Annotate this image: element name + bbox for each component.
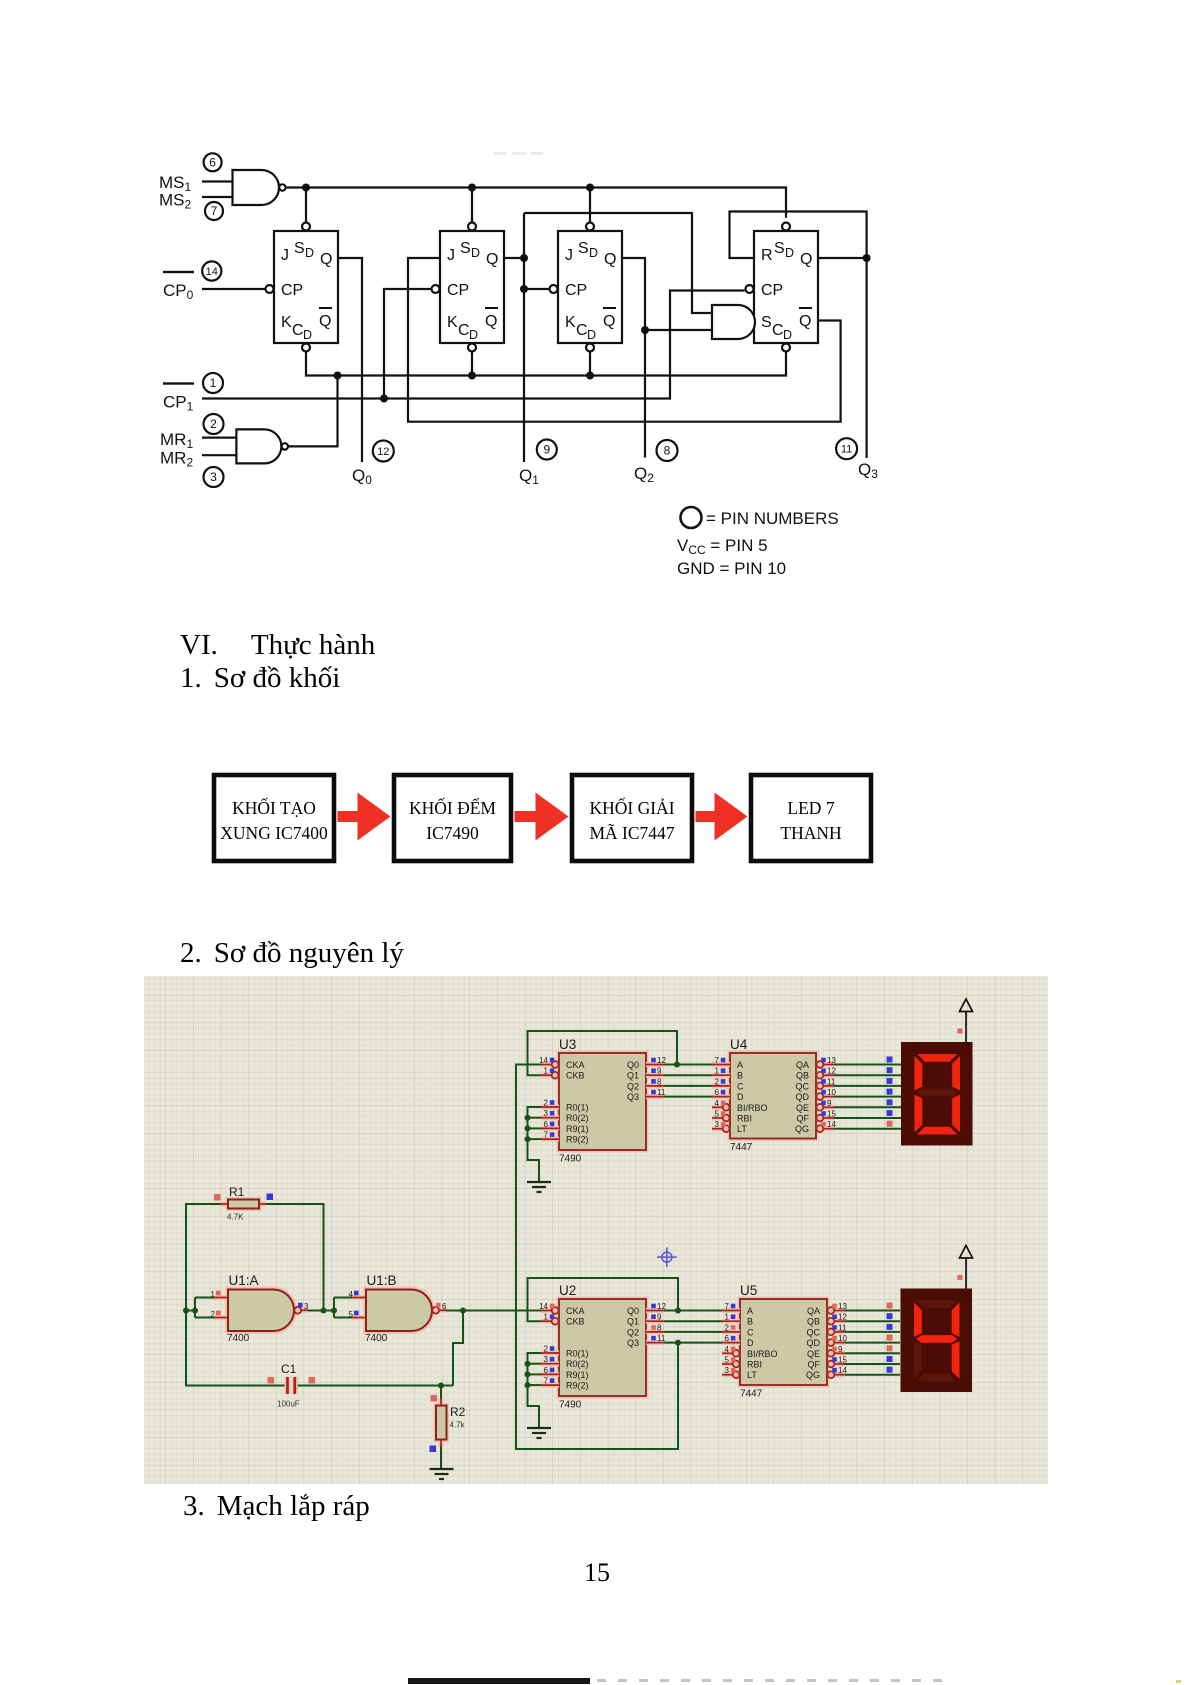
svg-text:6: 6 (544, 1120, 549, 1129)
junction R1 feedback node (321, 1308, 327, 1314)
svg-text:GND = PIN 10: GND = PIN 10 (677, 559, 786, 578)
svg-text:XUNG IC7400: XUNG IC7400 (220, 823, 328, 843)
svg-text:QG: QG (795, 1124, 809, 1134)
U5 pin 5 RBI (722, 1362, 740, 1367)
svg-text:R: R (761, 247, 773, 264)
FF3 CD bubble (586, 344, 594, 352)
U5 pin 14 QG (827, 1372, 845, 1377)
svg-text:RBI: RBI (737, 1114, 752, 1124)
wire U5 QF to display (845, 1363, 900, 1365)
svg-text:D: D (469, 328, 478, 342)
junction FF2 Q to FF3 CP (520, 285, 528, 293)
svg-text:D: D (737, 1092, 744, 1102)
svg-text:7400: 7400 (365, 1333, 388, 1344)
block diagram (0, 740, 1191, 890)
svg-text:QG: QG (806, 1370, 820, 1380)
U2 pin 1 CKB (541, 1319, 559, 1324)
svg-text:R1: R1 (229, 1185, 245, 1199)
flip-flop FF1 (274, 231, 338, 343)
svg-text:B: B (737, 1071, 743, 1081)
wire C1 right to R2 top (295, 1385, 453, 1387)
svg-text:Q1: Q1 (627, 1317, 639, 1327)
block box KHỐI TẠO XUNG IC7400 (214, 775, 334, 861)
svg-text:QD: QD (807, 1338, 821, 1348)
svg-text:Q: Q (604, 251, 616, 268)
svg-text:8: 8 (664, 444, 671, 458)
svg-text:= PIN NUMBERS: = PIN NUMBERS (706, 509, 839, 528)
U4 pin 1 B (712, 1073, 730, 1078)
svg-text:10: 10 (827, 1088, 836, 1097)
svg-text:3: 3 (304, 1302, 309, 1311)
junction CD rail FF2 (468, 372, 476, 380)
svg-text:Q: Q (486, 251, 498, 268)
resistor R2 (436, 1406, 447, 1440)
svg-text:S: S (774, 240, 785, 257)
svg-text:CP: CP (565, 282, 587, 299)
svg-text:2: 2 (544, 1099, 549, 1108)
U2 pin 6 R9(1) (541, 1372, 559, 1377)
svg-text:THANH: THANH (780, 823, 842, 843)
svg-text:C: C (747, 1327, 754, 1337)
heading 2 (180, 937, 404, 970)
svg-text:LED 7: LED 7 (787, 798, 834, 818)
resistor R1 (214, 1185, 273, 1222)
flip-flop FF2 (440, 231, 504, 343)
U4 pin 12 QB (816, 1073, 834, 1078)
U2 pin 8 Q2 (646, 1329, 664, 1334)
svg-text:11: 11 (657, 1088, 666, 1097)
svg-text:CKB: CKB (566, 1317, 585, 1327)
wire U4 QE to display (834, 1106, 901, 1108)
svg-text:LT: LT (737, 1124, 747, 1134)
svg-text:J: J (565, 247, 573, 264)
svg-text:1: 1 (211, 1290, 216, 1299)
wire U4 QC to display (834, 1085, 901, 1087)
wire U5 QD to display (845, 1342, 900, 1344)
svg-text:14: 14 (827, 1120, 836, 1129)
svg-text:7490: 7490 (559, 1400, 582, 1411)
U3 pin 11 Q3 (646, 1094, 664, 1099)
junction R1/C1/input node (183, 1308, 189, 1314)
svg-text:12: 12 (827, 1067, 836, 1076)
U2 pin 3 R0(2) (541, 1361, 559, 1366)
junction U2 Q0 node (675, 1308, 681, 1314)
U3 pin 8 Q2 (646, 1083, 664, 1088)
junction FF3 Q to AND (641, 326, 649, 334)
svg-text:R9(1): R9(1) (566, 1124, 589, 1134)
U2 pin 9 Q1 (646, 1319, 664, 1324)
svg-text:J: J (281, 247, 289, 264)
legend pin-number circle (681, 507, 702, 528)
wire U3 reset pins to ground (528, 1107, 542, 1182)
svg-text:S: S (294, 240, 305, 257)
wire U3 R0(2) tie (528, 1117, 542, 1119)
wire U3 Q0 to U4 A (664, 1064, 712, 1066)
junction FF2 Q node (520, 254, 528, 262)
svg-text:4: 4 (349, 1290, 354, 1299)
U5 pin 7 A (722, 1308, 740, 1313)
wire U5 QA to display (845, 1310, 900, 1312)
svg-text:7: 7 (544, 1377, 549, 1386)
svg-text:QC: QC (796, 1081, 810, 1091)
NAND gate U1:A (7400) (228, 1290, 294, 1332)
svg-text:MÃ IC7447: MÃ IC7447 (589, 823, 674, 843)
wire U5 QB to display (845, 1320, 900, 1322)
svg-text:2: 2 (725, 1323, 730, 1332)
svg-text:QC: QC (807, 1327, 821, 1337)
svg-text:Q2: Q2 (627, 1327, 639, 1337)
wire U4 QF to display (834, 1117, 901, 1119)
wire U2 R0(2) tie (528, 1363, 542, 1365)
wire U3 Q1 to U4 B (664, 1074, 712, 1076)
junction SD rail to FF3 (586, 184, 594, 192)
U5 pin 15 QF (827, 1362, 845, 1367)
junction U2 reset node 1 (525, 1361, 531, 1367)
flip-flop FF4 (754, 231, 818, 343)
wire U2 R9(2) tie (528, 1384, 542, 1386)
svg-text:Q2: Q2 (634, 464, 654, 485)
faint scan artifact line (493, 152, 543, 155)
svg-text:Q3: Q3 (858, 460, 878, 481)
power terminal bottom display anode (960, 1246, 973, 1289)
svg-text:QE: QE (807, 1349, 820, 1359)
svg-text:U1:A: U1:A (229, 1273, 259, 1288)
wire U3 R9(2) tie (528, 1138, 542, 1140)
svg-text:LT: LT (747, 1370, 757, 1380)
junction SD rail to FF2 (468, 184, 476, 192)
wire U2 Q0 to CKB feedback (528, 1278, 679, 1321)
svg-text:Q2: Q2 (627, 1081, 639, 1091)
svg-text:U3: U3 (559, 1037, 576, 1052)
7-segment display bottom (digit 4) (901, 1289, 973, 1393)
heading 1 (180, 662, 340, 695)
U4 pin 3 LT (712, 1126, 730, 1131)
FF2 CP bubble (432, 285, 440, 293)
U3 pin 9 Q1 (646, 1073, 664, 1078)
pin number circle 1 (203, 373, 223, 393)
svg-text:KHỐI TẠO: KHỐI TẠO (232, 798, 316, 818)
junction C1/R2 node (438, 1383, 444, 1389)
bottom cut-off image sliver (408, 1678, 590, 1684)
svg-text:QF: QF (797, 1114, 810, 1124)
block box KHỐI GIẢI MÃ IC7447 (572, 775, 692, 861)
wire FF3 CD drop (589, 351, 591, 375)
svg-text:3: 3 (544, 1109, 549, 1118)
wire R2 bottom lead (440, 1440, 442, 1470)
capacitor C1 (288, 1377, 295, 1394)
svg-text:14: 14 (838, 1366, 847, 1375)
pin number circle 9 (537, 440, 557, 460)
wire U3 Q2 to U4 C (664, 1085, 712, 1087)
svg-text:7: 7 (544, 1131, 549, 1140)
svg-text:B: B (747, 1317, 753, 1327)
svg-text:13: 13 (827, 1056, 836, 1065)
wire U1:B input tie bar (333, 1298, 335, 1318)
svg-text:QB: QB (807, 1317, 820, 1327)
svg-text:C: C (576, 322, 588, 339)
svg-text:100uF: 100uF (277, 1400, 300, 1409)
wire U3 Q3 to U4 D (664, 1096, 712, 1098)
svg-text:D: D (783, 328, 792, 342)
wire FF2 CD drop (471, 351, 473, 375)
wire U2 Q1 to U5 B (664, 1320, 722, 1322)
svg-text:D: D (589, 246, 598, 260)
wire osc to C1/R2 node (453, 1311, 463, 1386)
svg-text:MR2: MR2 (160, 449, 193, 470)
wire CP0 to FF1 CP (202, 288, 265, 290)
svg-text:3: 3 (544, 1355, 549, 1364)
U5 pin 9 QE (827, 1351, 845, 1356)
svg-text:15: 15 (827, 1110, 836, 1119)
svg-text:3: 3 (210, 470, 217, 484)
block box LED 7 THANH (751, 775, 871, 861)
wire CP1 line to FF4 CP (202, 291, 745, 399)
pin number circle 7 (205, 202, 223, 220)
svg-text:CKA: CKA (566, 1306, 585, 1316)
svg-text:1: 1 (210, 376, 217, 390)
U3 pin 12 Q0 (646, 1062, 664, 1067)
svg-text:10: 10 (838, 1334, 847, 1343)
junction U2 reset node 3 (525, 1382, 531, 1388)
svg-text:CP: CP (761, 282, 783, 299)
wire U1:B pin4 feed (334, 1297, 366, 1299)
wire U2 R9(1) tie (528, 1373, 542, 1375)
wire FF4 Qbar to FF2 J (408, 258, 841, 422)
pin number circle 2 (204, 414, 224, 434)
U4 pin 14 QG (816, 1126, 834, 1131)
svg-text:9: 9 (543, 443, 550, 457)
FF4 CD bubble (782, 344, 790, 352)
wire FF4 Q out (818, 257, 867, 259)
block box KHỐI ĐẾM IC7490 (394, 775, 511, 861)
svg-text:7490: 7490 (559, 1154, 582, 1165)
junction MR to CD rail (334, 372, 342, 380)
svg-text:U1:B: U1:B (367, 1273, 397, 1288)
svg-text:CKB: CKB (566, 1071, 585, 1081)
wire U2 Q3 to U3 CKA carry (516, 1065, 678, 1450)
U3 pin 2 R0(1) (541, 1105, 559, 1110)
svg-text:11: 11 (841, 444, 852, 456)
svg-text:R0(2): R0(2) (566, 1359, 589, 1369)
wire R1 left / C1 left loop (186, 1204, 287, 1386)
section heading VI (180, 629, 375, 662)
junction CD rail FF3 (586, 372, 594, 380)
wire U1:A pin1 feed (195, 1297, 228, 1299)
pin number circle 12 (373, 441, 394, 462)
wire loop to U1:A inputs (186, 1310, 195, 1312)
svg-text:QA: QA (807, 1306, 820, 1316)
svg-text:R9(2): R9(2) (566, 1135, 589, 1145)
svg-text:8: 8 (657, 1077, 662, 1086)
svg-text:11: 11 (657, 1334, 666, 1343)
svg-text:CKA: CKA (566, 1060, 585, 1070)
svg-text:12: 12 (657, 1056, 666, 1065)
svg-text:BI/RBO: BI/RBO (737, 1103, 768, 1113)
wire U4 QA to display (834, 1064, 901, 1066)
FF1 CP bubble (266, 285, 274, 293)
pin number circle 11 (836, 438, 857, 459)
svg-text:Q: Q (319, 313, 331, 330)
svg-text:KHỐI ĐẾM: KHỐI ĐẾM (409, 798, 496, 818)
svg-text:7: 7 (211, 204, 218, 218)
svg-text:8: 8 (657, 1323, 662, 1332)
wire SD drop FF2 (471, 188, 473, 223)
svg-text:VCC = PIN 5: VCC = PIN 5 (677, 536, 768, 557)
U4 pin 9 QE (816, 1105, 834, 1110)
red arrow (696, 793, 748, 841)
FF4 CP bubble (746, 285, 754, 293)
AND gate (FF4 S input) (712, 305, 755, 339)
svg-text:Q0: Q0 (352, 466, 372, 487)
svg-text:D: D (303, 328, 312, 342)
svg-text:15: 15 (838, 1356, 847, 1365)
wire MR2 input (202, 454, 236, 456)
svg-text:11: 11 (838, 1323, 847, 1332)
svg-text:QD: QD (796, 1092, 810, 1102)
svg-text:11: 11 (827, 1077, 836, 1086)
power terminal top display anode (960, 999, 973, 1042)
svg-text:KHỐI GIẢI: KHỐI GIẢI (589, 798, 674, 818)
wire FF2 Q to AND input 1 (524, 213, 712, 313)
wire FF4 Q to R loop (730, 212, 867, 259)
svg-text:4: 4 (725, 1345, 730, 1354)
svg-text:D: D (587, 328, 596, 342)
U5 pin 10 QD (827, 1340, 845, 1345)
svg-text:CP: CP (281, 282, 303, 299)
junction CP1 tap (380, 395, 388, 403)
svg-text:Q: Q (320, 251, 332, 268)
svg-text:D: D (747, 1338, 754, 1348)
U4 pin 2 C (712, 1083, 730, 1088)
junction U3 reset node 2 (525, 1125, 531, 1131)
svg-text:Q0: Q0 (627, 1060, 639, 1070)
svg-text:4.7k: 4.7k (450, 1421, 466, 1430)
IC U3 7490 (559, 1053, 646, 1150)
wire CD rail (306, 351, 786, 375)
U2 pin 14 CKA (541, 1308, 559, 1313)
svg-text:5: 5 (725, 1356, 730, 1365)
NAND gate MS input (pins 6,7) (233, 170, 280, 205)
U4 pin 10 QD (816, 1094, 834, 1099)
wire FF3 CP feed (524, 288, 549, 290)
wire U4 QB to display (834, 1074, 901, 1076)
wire FF3 Q to Q2 (623, 258, 645, 458)
wire U5 QE to display (845, 1352, 900, 1354)
svg-text:7: 7 (715, 1056, 720, 1065)
svg-text:C1: C1 (281, 1362, 297, 1376)
svg-text:14: 14 (539, 1302, 548, 1311)
U5 pin 3 LT (722, 1372, 740, 1377)
svg-text:Q: Q (603, 313, 615, 330)
svg-text:C: C (458, 322, 470, 339)
wire U2 Q0 to U5 A (664, 1310, 722, 1312)
svg-text:2: 2 (210, 417, 217, 431)
U5 pin 13 QA (827, 1308, 845, 1313)
svg-text:6: 6 (715, 1088, 720, 1097)
wire U2 Q2 to U5 C (664, 1331, 722, 1333)
U5 pin 1 B (722, 1319, 740, 1324)
svg-text:QE: QE (796, 1103, 809, 1113)
proteus schematic (144, 976, 1048, 1484)
svg-text:S: S (761, 314, 772, 331)
svg-text:R0(2): R0(2) (566, 1113, 589, 1123)
U5 pin 4 BI/RBO (722, 1351, 740, 1356)
wire FF2 CP from CP1 (384, 289, 431, 399)
wire MS1 input (202, 180, 233, 182)
svg-text:K: K (281, 314, 292, 331)
svg-text:QA: QA (796, 1060, 809, 1070)
wire U3 R9(1) tie (528, 1127, 542, 1129)
flip-flop FF3 (558, 231, 622, 343)
svg-text:7447: 7447 (730, 1142, 753, 1153)
svg-text:QB: QB (796, 1071, 809, 1081)
ground below U2 (527, 1428, 551, 1438)
wire U1:B pin5 feed (334, 1317, 366, 1319)
svg-text:7447: 7447 (740, 1389, 763, 1400)
FF2 CD bubble (468, 344, 476, 352)
svg-text:R9(1): R9(1) (566, 1370, 589, 1380)
wire FF1 Q to Q0 (338, 258, 362, 462)
grid background (144, 976, 1048, 1484)
svg-text:Q1: Q1 (519, 466, 539, 487)
IC U5 7447 (740, 1299, 827, 1385)
svg-text:QF: QF (808, 1360, 821, 1370)
wire U3 Q0 to CKB feedback (528, 1031, 678, 1075)
svg-text:J: J (447, 247, 455, 264)
NAND gate MR input (pins 2,3) (236, 429, 281, 463)
U3 pin 1 CKB (541, 1073, 559, 1078)
svg-text:12: 12 (657, 1302, 666, 1311)
svg-text:1: 1 (544, 1067, 549, 1076)
svg-text:Q0: Q0 (627, 1306, 639, 1316)
svg-text:U2: U2 (559, 1283, 576, 1298)
junction U3 Q0 node (674, 1062, 680, 1068)
junction U3 reset node 1 (525, 1115, 531, 1121)
pin number circle 6 (204, 153, 222, 171)
svg-text:Q3: Q3 (627, 1092, 639, 1102)
svg-text:A: A (737, 1060, 743, 1070)
FF2 SD bubble (468, 223, 476, 231)
pin number circle 8 (657, 440, 678, 461)
svg-text:6: 6 (544, 1366, 549, 1375)
svg-text:Q: Q (800, 251, 812, 268)
svg-text:S: S (460, 240, 471, 257)
wire U1:A input tie bar (194, 1298, 196, 1318)
svg-text:14: 14 (206, 266, 218, 278)
heading 3 (183, 1490, 370, 1523)
wire U2 Q3 to U5 D (664, 1342, 722, 1344)
svg-text:2: 2 (715, 1077, 720, 1086)
svg-text:9: 9 (827, 1099, 832, 1108)
junction input tie node (192, 1308, 198, 1314)
wire U5 QG to display (845, 1374, 900, 1376)
wire Q1 vertical (523, 213, 525, 462)
svg-text:14: 14 (539, 1056, 548, 1065)
wire U1:A pin2 feed (195, 1317, 228, 1319)
svg-text:2: 2 (211, 1310, 216, 1319)
junction SD rail to FF1 (302, 184, 310, 192)
page number (584, 1558, 610, 1588)
junction U1:B tie node (331, 1308, 337, 1314)
junction U3 reset node 3 (525, 1136, 531, 1142)
ground below R2 (430, 1469, 454, 1479)
U3 pin 3 R0(2) (541, 1115, 559, 1120)
svg-text:R0(1): R0(1) (566, 1103, 589, 1113)
NAND gate U1:B (7400) (366, 1290, 432, 1332)
wire SD drop FF3 (589, 188, 591, 223)
svg-text:A: A (747, 1306, 753, 1316)
svg-text:Q1: Q1 (627, 1071, 639, 1081)
